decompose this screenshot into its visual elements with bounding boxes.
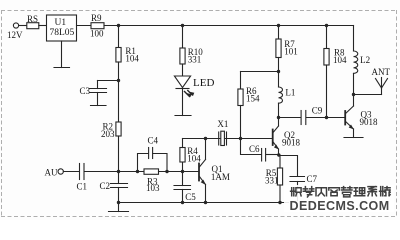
resistor R6 bbox=[238, 89, 243, 139]
node rail-R10 junction bbox=[181, 24, 184, 27]
capacitor C4 loop bbox=[138, 148, 168, 172]
svg-text:L2: L2 bbox=[360, 55, 370, 65]
svg-text:C6: C6 bbox=[249, 144, 260, 154]
svg-text:C5: C5 bbox=[185, 192, 196, 202]
ground (U1) bbox=[54, 41, 70, 68]
node rail-R7 junction bbox=[277, 24, 280, 27]
node C9-R8-Q3 base junction bbox=[325, 116, 328, 119]
wire to C3 bbox=[98, 81, 119, 89]
svg-text:C1: C1 bbox=[77, 182, 88, 192]
wire R1 to R2 bbox=[118, 62, 120, 122]
resistor R4 with top corner bbox=[180, 139, 185, 172]
resistor R5 bbox=[277, 155, 282, 203]
node rail-R8 junction bbox=[325, 24, 328, 27]
svg-text:R9: R9 bbox=[91, 13, 102, 23]
svg-text:ANT: ANT bbox=[372, 67, 391, 77]
node C4 left junction bbox=[136, 170, 139, 173]
wire U1 to R9 bbox=[77, 25, 92, 27]
node Q1 collector junction bbox=[204, 137, 207, 140]
node R7-R6-L1 junction bbox=[277, 70, 280, 73]
svg-text:12V: 12V bbox=[7, 30, 23, 40]
node bus-C2 junction bbox=[117, 201, 120, 204]
resistor R8 bbox=[324, 26, 329, 118]
capacitor C2 bbox=[111, 184, 128, 203]
wire C2 drop bbox=[118, 172, 120, 184]
capacitor C1 bbox=[80, 164, 85, 180]
svg-text:104: 104 bbox=[333, 55, 347, 65]
svg-text:RS: RS bbox=[27, 14, 38, 24]
node C4 right junction bbox=[165, 170, 168, 173]
node rail-R1 junction bbox=[117, 24, 120, 27]
capacitor C7 bbox=[280, 156, 305, 203]
svg-text:DEDECMS.COM: DEDECMS.COM bbox=[290, 199, 390, 213]
capacitor C3 bbox=[90, 89, 107, 106]
node R6-C6 junction bbox=[239, 137, 242, 140]
node Q2 emitter junction bbox=[277, 153, 280, 156]
regulator U1 bbox=[47, 15, 77, 41]
terminal AU bbox=[58, 169, 79, 174]
svg-text:C9: C9 bbox=[312, 106, 323, 116]
transistor Q1 bbox=[199, 139, 206, 203]
ground (C3) bbox=[91, 105, 107, 107]
svg-text:103: 103 bbox=[146, 183, 160, 193]
wire V+ rail bbox=[104, 25, 354, 27]
wire C5 drop bbox=[182, 172, 184, 186]
wire R3 to Q1 base bbox=[159, 171, 200, 173]
wire rail to R1 bbox=[118, 26, 120, 48]
svg-text:154: 154 bbox=[246, 94, 260, 104]
node R2-C2 audio junction bbox=[117, 170, 120, 173]
wire LED to ground bbox=[182, 89, 184, 116]
node L2-ANT-Q3 collector junction bbox=[352, 93, 355, 96]
capacitor C5 bbox=[174, 186, 191, 203]
LED bbox=[174, 76, 194, 97]
ground (main) bbox=[109, 203, 129, 212]
capacitor C9 bbox=[301, 111, 306, 125]
svg-text:LED: LED bbox=[193, 77, 214, 89]
svg-text:9018: 9018 bbox=[282, 138, 301, 148]
wire R6 to R7 bbox=[241, 71, 279, 73]
svg-text:9018: 9018 bbox=[360, 117, 379, 127]
wire R2 to audio line bbox=[118, 136, 120, 172]
node bus-C5 junction bbox=[181, 201, 184, 204]
crystal X1 bbox=[219, 131, 227, 145]
svg-text:331: 331 bbox=[265, 176, 279, 186]
node Q2 collector-C9 junction bbox=[277, 116, 280, 119]
svg-text:L1: L1 bbox=[285, 88, 295, 98]
svg-text:104: 104 bbox=[125, 54, 139, 64]
ground (Q3) bbox=[344, 137, 363, 139]
wire collector net to C9 bbox=[279, 117, 301, 119]
inductor L1 bbox=[279, 72, 283, 118]
antenna ANT bbox=[354, 78, 388, 95]
resistor RS bbox=[27, 23, 47, 29]
svg-text:C3: C3 bbox=[80, 86, 91, 96]
svg-text:100: 100 bbox=[90, 29, 104, 39]
svg-text:1AM: 1AM bbox=[211, 172, 230, 182]
svg-text:U1: U1 bbox=[55, 18, 67, 28]
svg-text:331: 331 bbox=[188, 55, 202, 65]
terminal 12V bbox=[13, 23, 26, 28]
ground (LED) bbox=[175, 115, 191, 117]
resistor R9 bbox=[91, 23, 104, 29]
transistor Q3 bbox=[345, 95, 354, 138]
node bus-Q1 emitter junction bbox=[204, 201, 207, 204]
svg-text:C2: C2 bbox=[100, 181, 111, 191]
inductor L2 bbox=[354, 26, 358, 95]
node R4-C5 junction bbox=[181, 170, 184, 173]
svg-text:78L05: 78L05 bbox=[50, 28, 75, 38]
wire ground bus bbox=[118, 202, 298, 204]
svg-text:X1: X1 bbox=[217, 119, 228, 129]
wire oscillator net bbox=[183, 138, 273, 140]
svg-text:C7: C7 bbox=[307, 174, 318, 184]
node bus-R5 junction bbox=[278, 201, 281, 204]
svg-text:203: 203 bbox=[101, 129, 115, 139]
wire R6 drop bbox=[240, 72, 242, 90]
wire C9 to Q3 base bbox=[306, 117, 345, 119]
svg-text:101: 101 bbox=[284, 47, 298, 57]
svg-text:C4: C4 bbox=[148, 136, 159, 146]
wire R10 to LED bbox=[182, 64, 184, 76]
watermark bbox=[284, 185, 394, 213]
wire rail to R10 bbox=[182, 26, 184, 49]
resistor R2 bbox=[116, 122, 121, 136]
transistor Q2 bbox=[273, 118, 279, 156]
resistor R7 bbox=[276, 26, 281, 72]
svg-text:104: 104 bbox=[187, 154, 201, 164]
resistor R3 bbox=[144, 169, 159, 174]
svg-text:AU: AU bbox=[45, 168, 58, 178]
wire audio line bbox=[84, 171, 144, 173]
resistor R1 bbox=[116, 48, 121, 63]
node R1-C3 junction bbox=[117, 79, 120, 82]
resistor R10 bbox=[180, 48, 185, 64]
capacitor C6 bbox=[241, 139, 279, 162]
